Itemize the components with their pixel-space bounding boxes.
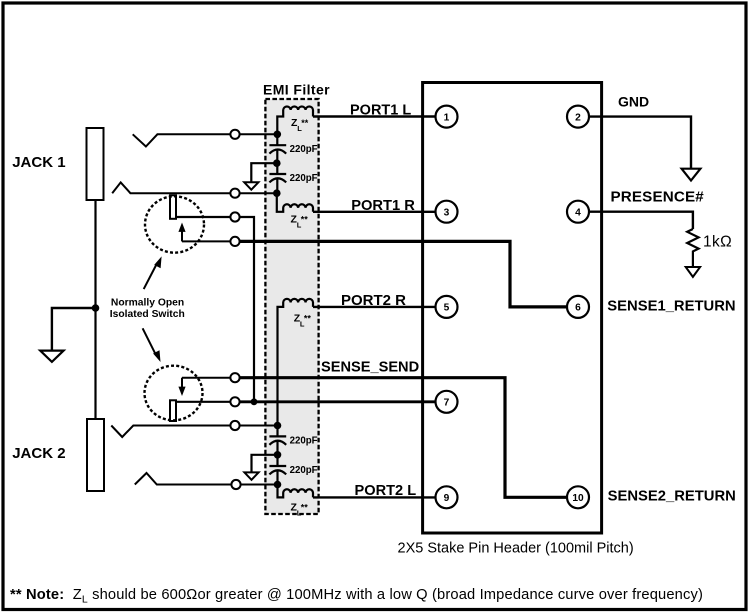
svg-text:9: 9 bbox=[444, 493, 450, 504]
svg-text:1kΩ: 1kΩ bbox=[703, 234, 732, 251]
svg-text:PORT2 R: PORT2 R bbox=[341, 292, 406, 309]
svg-text:SENSE1_RETURN: SENSE1_RETURN bbox=[607, 299, 735, 315]
svg-text:PORT2 L: PORT2 L bbox=[355, 483, 417, 499]
svg-text:JACK 1: JACK 1 bbox=[12, 154, 65, 171]
svg-text:GND: GND bbox=[618, 94, 649, 110]
svg-text:SENSE_SEND: SENSE_SEND bbox=[321, 360, 419, 376]
svg-text:7: 7 bbox=[444, 398, 450, 409]
svg-text:220pF: 220pF bbox=[290, 436, 318, 447]
svg-text:PRESENCE#: PRESENCE# bbox=[611, 189, 705, 206]
svg-text:PORT1 R: PORT1 R bbox=[351, 198, 415, 214]
svg-text:1: 1 bbox=[444, 112, 450, 123]
svg-text:Normally Open: Normally Open bbox=[111, 297, 184, 308]
svg-text:JACK 2: JACK 2 bbox=[12, 445, 65, 462]
svg-text:Isolated Switch: Isolated Switch bbox=[110, 309, 185, 320]
svg-text:220pF: 220pF bbox=[290, 144, 318, 155]
svg-text:220pF: 220pF bbox=[290, 465, 318, 476]
svg-text:220pF: 220pF bbox=[290, 173, 318, 184]
svg-text:2X5 Stake Pin Header (100mil P: 2X5 Stake Pin Header (100mil Pitch) bbox=[398, 541, 634, 557]
svg-text:EMI Filter: EMI Filter bbox=[263, 82, 330, 98]
svg-text:6: 6 bbox=[575, 303, 581, 314]
svg-text:2: 2 bbox=[575, 112, 581, 123]
svg-text:10: 10 bbox=[572, 493, 584, 504]
svg-text:** Note: ZL should be 600Ωor: ** Note: ZL should be 600Ωor greater @ 1… bbox=[10, 587, 703, 606]
svg-text:4: 4 bbox=[575, 207, 581, 218]
svg-text:PORT1 L: PORT1 L bbox=[350, 103, 411, 119]
svg-text:SENSE2_RETURN: SENSE2_RETURN bbox=[608, 489, 736, 505]
svg-text:3: 3 bbox=[444, 207, 450, 218]
svg-text:5: 5 bbox=[444, 303, 450, 314]
